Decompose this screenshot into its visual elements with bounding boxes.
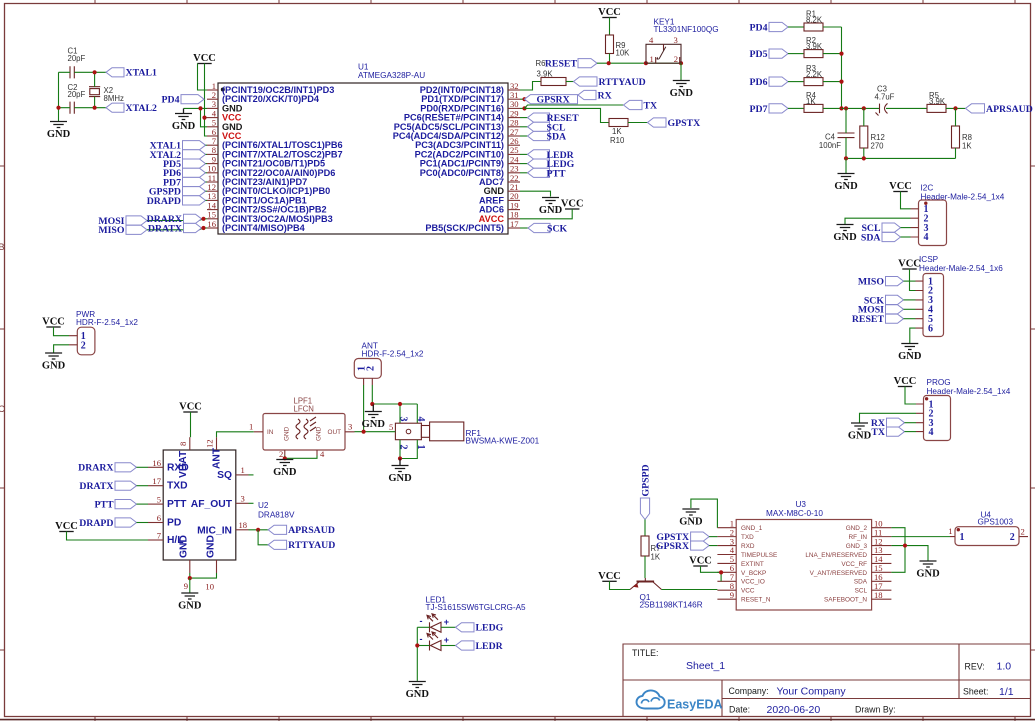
wire RF_IN to U4 [891, 536, 950, 538]
net flag PD7 (ladder) [750, 104, 788, 115]
U1 pin 26 PC3(ADC3/PCINT11) [415, 136, 520, 150]
junction C4/rail [844, 156, 848, 160]
wire rail to gnd [845, 158, 847, 173]
junction U2 gnd [188, 576, 192, 580]
U1 pin 27 PC4(ADC4/SDA/PCINT12) [393, 127, 520, 141]
U3 pin 9 RESET_N [717, 590, 770, 604]
resistor R3 2.2K [804, 64, 823, 86]
svg-text:VBAT: VBAT [178, 450, 189, 478]
svg-text:B: B [0, 242, 5, 252]
wire pin21 to gnd [520, 191, 551, 196]
svg-text:PTT: PTT [547, 168, 567, 179]
svg-text:APRSAUD: APRSAUD [986, 104, 1033, 115]
net flag GPSTX (R10) [648, 118, 701, 129]
ground (I2C) [833, 225, 857, 244]
U3 pin 4 TIMEPULSE [717, 545, 777, 559]
svg-text:4: 4 [320, 449, 325, 459]
svg-text:DRA818V: DRA818V [258, 511, 295, 520]
svg-text:2SB1198KT146R: 2SB1198KT146R [640, 601, 703, 610]
svg-text:6: 6 [928, 323, 933, 334]
junction KEY1 pin1 [644, 61, 648, 65]
wire bus to C3 [842, 107, 880, 109]
svg-text:GPSRX: GPSRX [537, 95, 570, 106]
wire R8 leads [955, 108, 957, 158]
net flag RX (pin31) [578, 90, 612, 101]
svg-text:20pF: 20pF [68, 90, 86, 99]
wire GPSRX to U3 RXD [709, 545, 717, 547]
svg-text:RTTYAUD: RTTYAUD [599, 77, 646, 88]
net flag GPSPD (vertical) [640, 464, 651, 519]
ground (crystal) [47, 122, 71, 141]
capacitor C2 20pF [68, 83, 86, 114]
net flag MISO [98, 225, 147, 236]
svg-text:ATMEGA328P-AU: ATMEGA328P-AU [358, 71, 425, 80]
connector ANT HDR-F-2.54_1x2 [354, 342, 424, 386]
svg-text:Drawn By:: Drawn By: [855, 705, 896, 715]
svg-text:MIC_IN: MIC_IN [197, 525, 232, 536]
net flag MOSI [98, 216, 147, 227]
svg-text:RESET: RESET [545, 59, 578, 70]
wire bottom rail [846, 157, 956, 159]
svg-text:APRSAUD: APRSAUD [288, 525, 335, 536]
crystal X2 8MHz [89, 86, 124, 103]
svg-text:4: 4 [924, 232, 929, 243]
svg-text:EXTINT: EXTINT [741, 561, 764, 568]
U3 pin 18 SAFEBOOT_N [824, 590, 891, 604]
wire SCL to pin3 [901, 227, 911, 229]
VCC supply (PWR) [42, 317, 65, 328]
svg-text:SCK: SCK [547, 224, 568, 235]
wire pin28 [520, 126, 528, 128]
ground (U1 pin21) [539, 198, 563, 217]
junction R9/RESET [607, 61, 611, 65]
wire pin30 to TX [525, 105, 624, 108]
net flag PD5 (U1 pin 9) [163, 159, 205, 170]
svg-text:IN: IN [267, 429, 274, 436]
svg-text:DRATX: DRATX [148, 223, 182, 234]
U2 pin 12 ANT [205, 437, 223, 469]
net flag RESET (U1) [528, 113, 580, 124]
svg-text:1K: 1K [612, 127, 622, 136]
U1 pin 13 (PCINT1/OC1A)PB1 [207, 191, 307, 205]
U3 pin 14 VCC_RF [841, 554, 891, 568]
svg-text:SCL: SCL [855, 588, 868, 595]
svg-text:LFCN: LFCN [294, 405, 314, 414]
svg-text:Sheet_1: Sheet_1 [686, 660, 725, 672]
wire pin24 [520, 163, 528, 165]
U2 pin 18 MIC_IN [197, 520, 248, 537]
VCC supply (ICSP) [898, 259, 921, 270]
junction pin15 [201, 217, 205, 221]
svg-text:VCC: VCC [898, 259, 921, 270]
svg-text:1: 1 [650, 54, 654, 64]
wire VCC to U3 pins6,7 [701, 566, 722, 581]
svg-text:TX: TX [871, 427, 885, 438]
junction VCC pin4 [202, 116, 206, 120]
connector PROG Header-Male-2.54_1x4 [916, 378, 1011, 440]
antenna U4 GPS1003 [948, 510, 1028, 545]
svg-text:8MHz: 8MHz [104, 94, 124, 103]
svg-text:PROG: PROG [927, 378, 951, 387]
wire U1 pin3 to GND [184, 107, 208, 109]
wire Q1 collector to U3 VCC [662, 589, 718, 591]
resistor R1 8.2K [804, 9, 823, 31]
U1 pin 18 AVCC [479, 210, 520, 224]
svg-text:4.7uF: 4.7uF [875, 93, 895, 102]
net flag RTTYAUD (U2) [268, 540, 335, 551]
U3 pin 17 SCL [855, 581, 892, 595]
junction R2/bus [839, 52, 843, 56]
VCC supply (Q1) [598, 571, 621, 582]
connector RF1 BWSMA-KWE-Z001 [389, 417, 540, 450]
svg-text:PD4: PD4 [162, 95, 180, 106]
ground (KEY1) [670, 81, 694, 100]
wire XTAL2 node [59, 107, 107, 109]
connector I2C Header-Male-2.54_1x4 [911, 184, 1005, 246]
svg-text:BWSMA-KWE-Z001: BWSMA-KWE-Z001 [466, 437, 540, 446]
svg-text:LEDR: LEDR [476, 641, 504, 652]
svg-text:+: + [444, 635, 449, 645]
svg-text:4: 4 [649, 35, 654, 45]
wire PD4 to R1 [788, 26, 804, 28]
wire U1 pin5 to GND link [201, 108, 208, 126]
net flag DRAPD (U2) [79, 518, 136, 529]
net flag DRARX (U2) [78, 463, 136, 474]
svg-text:9: 9 [730, 590, 734, 600]
U3 pin 1 GND_1 [717, 518, 762, 532]
svg-text:I2C: I2C [921, 184, 934, 193]
wire ICSP pin6 to gnd [910, 328, 916, 343]
U1 pin 7 (PCINT6/XTAL1/TOSC1)PB6 [207, 136, 343, 150]
net flag RTTYAUD (R6) [574, 77, 646, 88]
U3 pin 3 RXD [717, 536, 754, 550]
svg-text:-: - [420, 634, 423, 644]
wire VCC to PROG pin1 [905, 387, 916, 405]
svg-text:GPSPD: GPSPD [641, 464, 652, 496]
wire PD5 to R2 [788, 53, 804, 55]
wire MIC_IN to RTTYAUD [258, 530, 268, 545]
net flag APRSAUD (R5) [966, 104, 1033, 115]
wire LED cathode [417, 645, 429, 647]
svg-text:GND: GND [539, 205, 563, 216]
U1 pin 15 (PCINT3/OC2A/MOSI)PB3 [207, 210, 333, 224]
svg-text:OUT: OUT [328, 429, 342, 436]
junction XTAL1/C1/X2 [93, 70, 97, 74]
wire XTAL2 to pin 8 [206, 153, 208, 155]
wire ANT to LPF1 [217, 432, 254, 437]
svg-text:VCC: VCC [889, 181, 912, 192]
wire GPSPD to pin 12 [206, 190, 208, 192]
resistor R6 3.9K [541, 78, 566, 86]
VCC supply (R9) [598, 7, 621, 18]
EasyEDA logo [637, 690, 723, 711]
svg-text:VCC: VCC [193, 53, 216, 64]
wire VCC to U1 pin1 [198, 64, 208, 91]
wire R10 to GPSTX [628, 122, 648, 124]
svg-text:SAFEBOOT_N: SAFEBOOT_N [824, 597, 867, 604]
resistor R10 1K [609, 119, 628, 146]
svg-text:TX: TX [644, 100, 658, 111]
U1 pin 20 AREF [479, 191, 520, 205]
wire crystal leads [94, 72, 96, 107]
U3 pin 7 VCC_IO [717, 572, 764, 586]
wire C3 to R5 [886, 107, 927, 109]
wire MISO to ICSP [904, 280, 916, 282]
svg-text:GND: GND [205, 535, 216, 558]
VCC supply (U3 V_BCKP) [689, 556, 712, 567]
wire LED anode [441, 626, 456, 628]
wire TX to PROG pin4 [905, 431, 917, 433]
svg-text:2: 2 [81, 341, 86, 352]
VCC supply (U1 top) [193, 53, 216, 64]
wire pin17 [520, 227, 528, 229]
U1 pin 5 GND [207, 118, 243, 132]
svg-text:VCC: VCC [741, 588, 755, 595]
wire pin31 [520, 98, 525, 100]
net flag XTAL2 (crystal) [106, 103, 157, 114]
LED element B [420, 632, 449, 651]
svg-text:DRAPD: DRAPD [79, 518, 113, 529]
svg-text:16: 16 [207, 219, 216, 229]
svg-text:MISO: MISO [858, 277, 885, 288]
svg-text:AF_OUT: AF_OUT [191, 499, 233, 510]
svg-text:GND: GND [834, 181, 858, 192]
svg-text:100nF: 100nF [819, 141, 841, 150]
svg-text:7: 7 [157, 531, 162, 541]
wire ANT pin1 to RF node [363, 385, 365, 432]
wire pin30 [520, 107, 525, 109]
svg-text:GND: GND [833, 232, 857, 243]
svg-text:270: 270 [871, 142, 885, 151]
net flag GPSTX (U3) [656, 532, 709, 543]
svg-text:3: 3 [348, 422, 352, 432]
svg-text:LEDG: LEDG [476, 623, 504, 634]
net flag TX (PROG) [871, 427, 904, 438]
wire R2 to bus [823, 53, 842, 55]
wire VCC to pin18 [520, 209, 572, 219]
net flag GPSRX (U1 pin31) [525, 95, 578, 106]
junction pin16 [201, 226, 205, 230]
svg-text:DRATX: DRATX [79, 481, 113, 492]
svg-text:TITLE:: TITLE: [632, 648, 658, 658]
svg-text:PD4: PD4 [750, 22, 768, 33]
wire U3 gnd loop pins10,15 [891, 528, 905, 573]
junction R12/rail [862, 156, 866, 160]
wire VCC to I2C pin1 [901, 192, 911, 209]
U1 pin 24 PC1(ADC1/PCINT9) [420, 154, 520, 168]
U1 pin 21 GND [484, 182, 520, 196]
capacitor C1 20pF [68, 47, 86, 79]
filter LPF1 LFCN [249, 397, 355, 460]
net flag SCK (U1 pin17) [528, 223, 568, 234]
U1 pin 28 PC5(ADC5/SCL/PCINT13) [394, 118, 520, 132]
svg-text:(PCINT4/MISO)PB4: (PCINT4/MISO)PB4 [222, 223, 306, 233]
wire R12 leads [863, 108, 865, 158]
svg-text:18: 18 [239, 520, 248, 530]
wire DRAPD to pin 13 [206, 199, 208, 201]
op-amp U2 DRA818V body [163, 450, 295, 560]
net flag SCL (I2C) [861, 223, 900, 234]
svg-text:3: 3 [674, 35, 678, 45]
wire RESET to ICSP [904, 318, 916, 320]
svg-text:GND: GND [273, 467, 297, 478]
wire GPSTX to U3 TXD [709, 536, 717, 538]
svg-text:MISO: MISO [98, 225, 125, 236]
wire I2C pin2 to gnd [845, 218, 911, 224]
junction U3 pin6 [719, 570, 723, 574]
connector PWR HDR-F-2.54_1x2 [69, 310, 138, 355]
svg-text:RESET: RESET [852, 314, 885, 325]
svg-text:Sheet:: Sheet: [963, 687, 988, 697]
svg-text:Header-Male-2.54_1x4: Header-Male-2.54_1x4 [927, 387, 1011, 396]
svg-text:GPSRX: GPSRX [656, 541, 689, 552]
wire R4 to bus [823, 107, 842, 109]
svg-text:2.2K: 2.2K [806, 70, 823, 79]
svg-text:6: 6 [157, 513, 162, 523]
svg-text:GND: GND [178, 601, 202, 612]
svg-text:V_ANT/RESERVED: V_ANT/RESERVED [810, 570, 868, 577]
ground (PROG) [848, 423, 872, 442]
capacitor C4 100nF [819, 133, 855, 151]
U3 pin 8 VCC [717, 581, 754, 595]
svg-text:RESET_N: RESET_N [741, 597, 771, 604]
U1 pin 6 VCC [207, 127, 242, 141]
wire GPSPD to R7 [644, 520, 646, 537]
svg-text:12: 12 [205, 439, 215, 448]
svg-text:VCC: VCC [598, 571, 621, 582]
net flag DRATX (pin16) [148, 223, 202, 234]
wire VCC to ICSP pin2 [910, 269, 916, 291]
ground (PWR) [42, 353, 66, 372]
svg-text:TXD: TXD [741, 534, 754, 541]
junction pin3/pin5 gnd [198, 106, 202, 110]
net flag MOSI (ICSP) [858, 305, 904, 316]
svg-text:HDR-F-2.54_1x2: HDR-F-2.54_1x2 [362, 350, 424, 359]
net flag SDA (I2C) [861, 232, 901, 243]
svg-text:8.2K: 8.2K [806, 16, 823, 25]
svg-text:VCC: VCC [561, 199, 584, 210]
LED LED1 TJ-S1615SW6TGLCRG-A5 [426, 596, 527, 613]
svg-text:SDA: SDA [547, 132, 567, 143]
net flag LEDG [456, 623, 504, 634]
title block [623, 644, 1031, 717]
net flag SCK (ICSP) [864, 295, 904, 306]
net flag LEDR [456, 641, 504, 652]
U2 pin 1 SQ [217, 465, 248, 481]
net flag LEDG (U1) [528, 159, 575, 170]
ground (U1 pins 3,5) [172, 109, 196, 133]
svg-text:3: 3 [398, 417, 409, 422]
svg-text:GND: GND [172, 121, 196, 132]
junction ANT pin1/RF1 [362, 430, 366, 434]
svg-text:GND: GND [670, 88, 694, 99]
svg-text:U3: U3 [796, 500, 807, 509]
svg-text:C: C [0, 404, 5, 414]
junction R4/bus [839, 106, 843, 110]
net flag APRSAUD (U2) [268, 525, 335, 536]
svg-text:9: 9 [184, 581, 188, 591]
resistor R7 1K [641, 536, 661, 562]
resistor R5 3.9K [927, 91, 946, 113]
svg-text:GND: GND [898, 351, 922, 362]
VCC supply (VBAT) [179, 402, 202, 413]
svg-text:8: 8 [178, 442, 188, 446]
svg-text:GND: GND [316, 426, 323, 441]
svg-text:GND: GND [47, 129, 71, 140]
wire R5 to APRSAUD [946, 107, 966, 109]
U2 pin 8 VBAT [178, 437, 190, 478]
svg-text:TXD: TXD [167, 481, 188, 492]
U1 pin 12 (PCINT0/CLKO/ICP1)PB0 [207, 182, 330, 196]
svg-text:VCC: VCC [894, 376, 917, 387]
net flag XTAL1 (U1 pin 7) [150, 141, 206, 152]
svg-text:ICSP: ICSP [919, 255, 939, 264]
svg-text:GND_2: GND_2 [846, 525, 868, 532]
wire SQ stub [249, 474, 254, 476]
wire VCC to PWR pin1 [54, 327, 70, 336]
svg-text:2020-06-20: 2020-06-20 [767, 704, 821, 716]
svg-text:1.0: 1.0 [997, 661, 1012, 673]
U2 pin 3 AF_OUT [191, 493, 249, 510]
U2 pin 5 PTT [148, 495, 187, 511]
wire SCK to ICSP [904, 299, 916, 301]
svg-text:10K: 10K [616, 49, 631, 58]
svg-text:VCC_IO: VCC_IO [741, 579, 765, 586]
junction KEY1 pin2 [679, 61, 683, 65]
net flag RESET (ICSP) [852, 314, 904, 325]
wire DRATX to U2 [137, 485, 149, 487]
svg-text:DRARX: DRARX [78, 463, 113, 474]
svg-text:RF_IN: RF_IN [849, 534, 868, 541]
wire pin27 [520, 135, 528, 137]
net flag SCL (U1) [528, 122, 567, 133]
svg-text:2: 2 [279, 449, 283, 459]
svg-text:3.9K: 3.9K [537, 70, 554, 79]
wire RF1 pins 1,2 to gnd [400, 440, 417, 459]
net flag TX (pin30) [624, 100, 658, 111]
resistor R2 3.9K [804, 36, 823, 58]
svg-text:V_BCKP: V_BCKP [741, 570, 766, 577]
U1 pin 22 ADC7 [479, 173, 520, 187]
svg-text:2: 2 [366, 366, 377, 371]
wire ANT pin2 to gnd rail [371, 385, 373, 404]
ground (RF1) [388, 459, 412, 485]
svg-text:GPS1003: GPS1003 [978, 518, 1014, 527]
wire SDA to pin4 [901, 236, 911, 238]
svg-text:Header-Male-2.54_1x6: Header-Male-2.54_1x6 [919, 264, 1003, 273]
wire LED cathode [417, 626, 429, 628]
wire VCC to Q1 emitter [610, 581, 631, 589]
svg-text:VCC: VCC [55, 521, 78, 532]
svg-text:1: 1 [960, 532, 965, 543]
svg-text:SDA: SDA [861, 232, 881, 243]
wire PROG pin2 to gnd [860, 413, 917, 422]
wire PD6 to pin 10 [206, 172, 208, 174]
wire R6 to RTTYAUD [566, 81, 574, 83]
op-amp U1 ATMEGA328P-AU body [218, 63, 508, 235]
U1 pin 2 (PCINT20/XCK/T0)PD4 [207, 90, 320, 104]
net flag PD7 (U1 pin 11) [163, 177, 205, 188]
ground (U3 GND_3) [916, 561, 940, 580]
svg-text:TJ-S1615SW6TGLCRG-A5: TJ-S1615SW6TGLCRG-A5 [426, 603, 527, 612]
ground (LPF1) [273, 460, 297, 479]
wire PD7 to R4 [788, 107, 804, 109]
wire pin23 [520, 172, 528, 174]
U1 pin 31 PD1(TXD/PCINT17) [421, 90, 520, 104]
resistor R9 10K [606, 35, 631, 58]
svg-text:VCC: VCC [42, 317, 65, 328]
net flag XTAL1 (crystal) [106, 68, 157, 79]
